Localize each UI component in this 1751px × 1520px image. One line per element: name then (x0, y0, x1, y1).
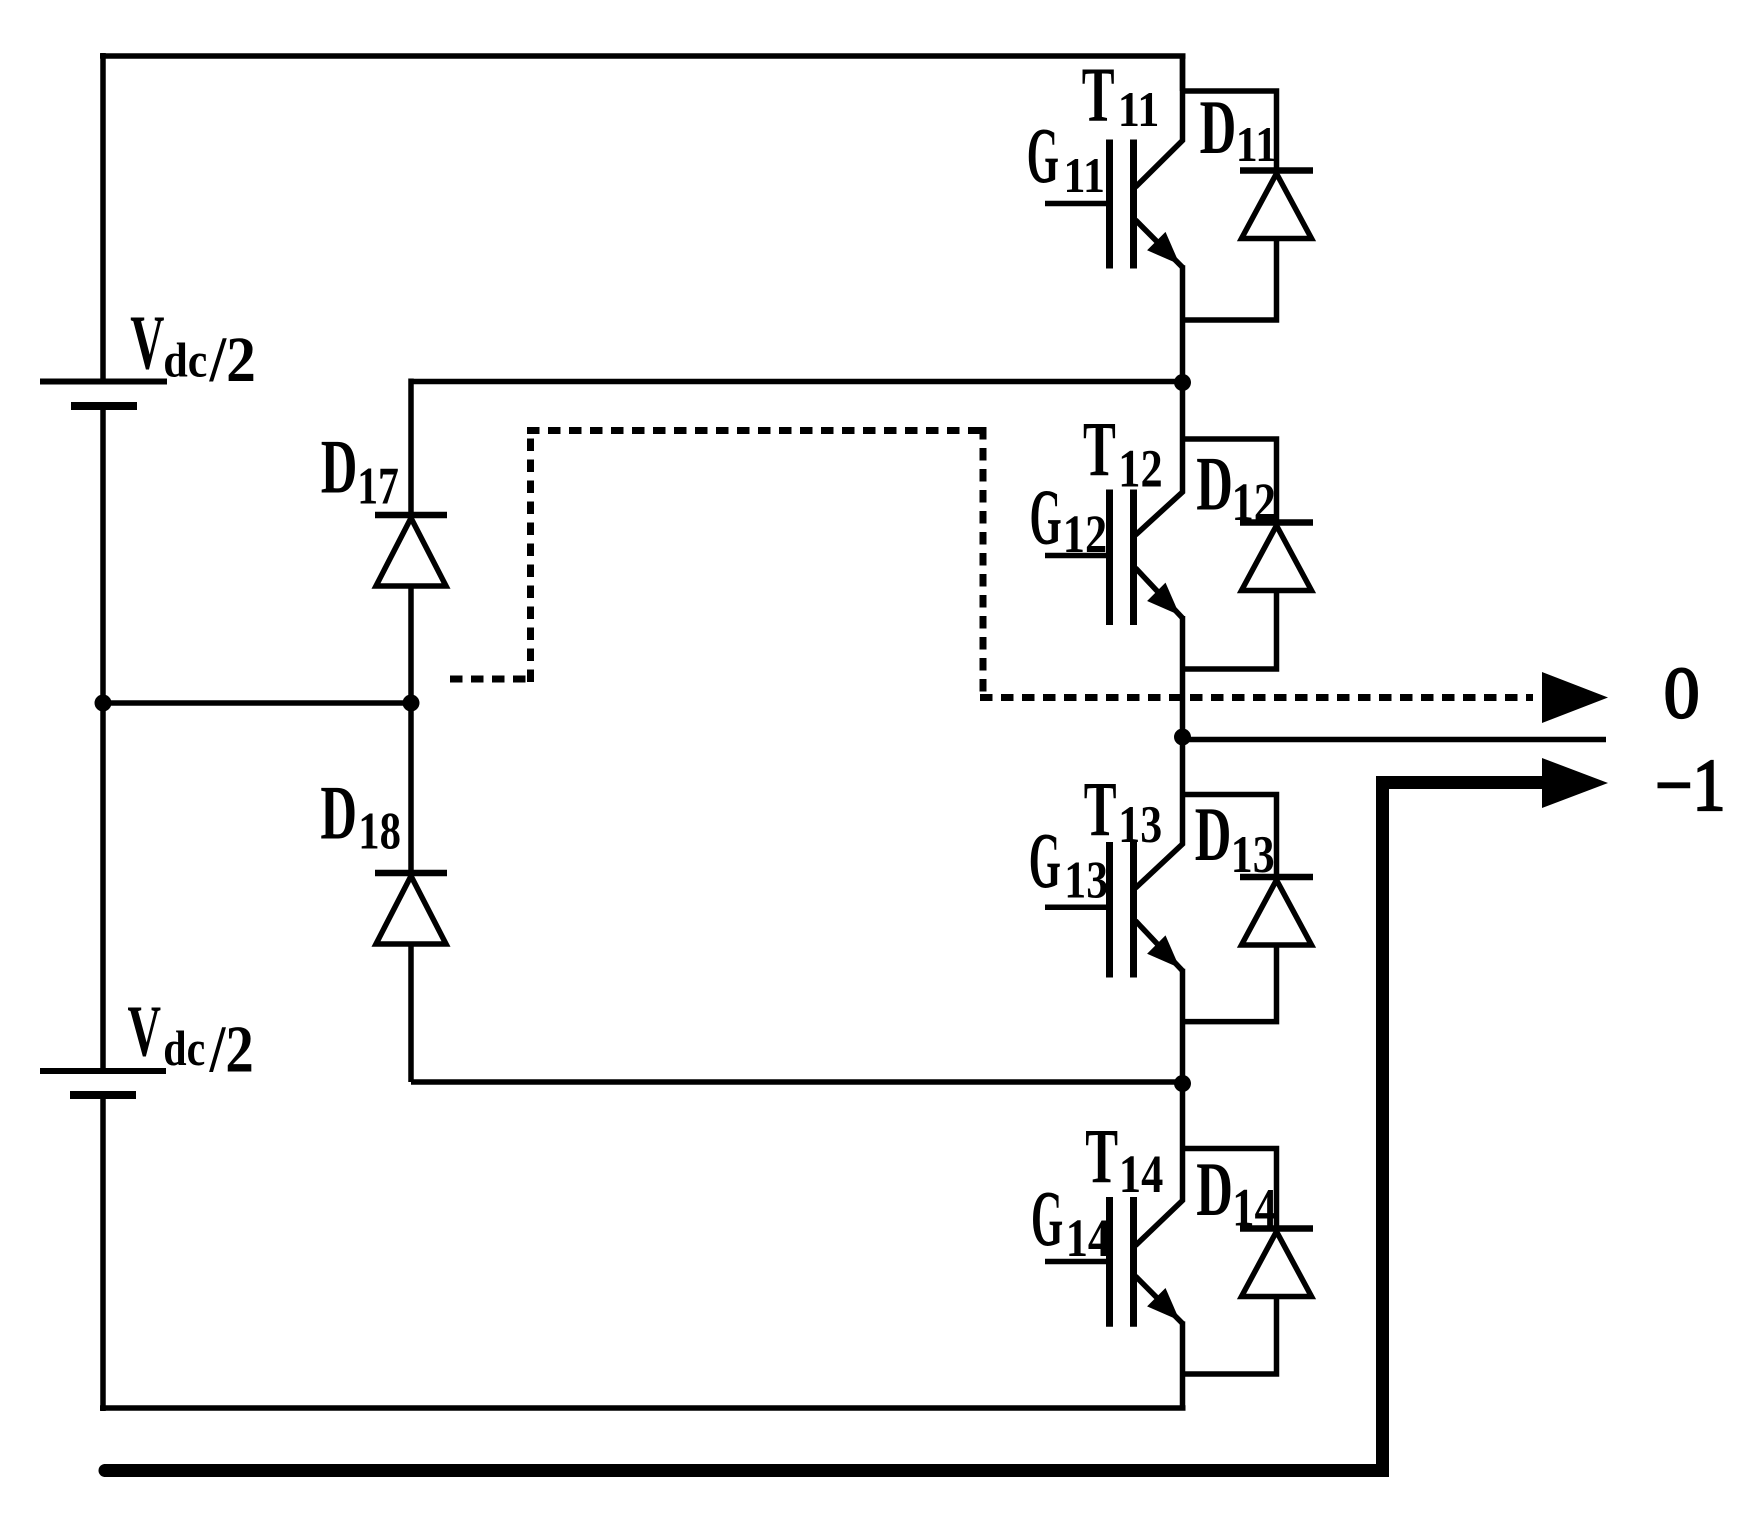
svg-text:T: T (1083, 407, 1116, 493)
svg-text:11: 11 (1118, 83, 1159, 138)
svg-text:D: D (1196, 442, 1233, 527)
svg-text:/2: /2 (209, 1013, 254, 1086)
svg-text:G: G (1030, 473, 1062, 561)
svg-text:D: D (321, 425, 358, 510)
svg-text:G: G (1029, 817, 1061, 905)
svg-text:14: 14 (1066, 1208, 1110, 1268)
svg-text:G: G (1031, 1175, 1063, 1263)
svg-text:13: 13 (1118, 795, 1162, 854)
svg-text:13: 13 (1231, 825, 1275, 884)
svg-text:11: 11 (1064, 148, 1105, 203)
svg-text:V: V (128, 992, 161, 1072)
svg-text:/2: /2 (209, 323, 256, 395)
svg-text:12: 12 (1232, 472, 1276, 532)
svg-text:T: T (1085, 1114, 1118, 1200)
svg-text:D: D (1195, 793, 1232, 878)
svg-text:18: 18 (358, 802, 401, 860)
svg-text:17: 17 (357, 457, 399, 516)
svg-text:T: T (1082, 53, 1115, 139)
svg-text:dc: dc (163, 1021, 205, 1076)
svg-text:13: 13 (1064, 851, 1108, 910)
svg-text:G: G (1027, 112, 1059, 200)
svg-text:D: D (1196, 1147, 1233, 1232)
svg-text:14: 14 (1119, 1144, 1163, 1204)
svg-text:12: 12 (1118, 438, 1162, 498)
svg-text:14: 14 (1232, 1177, 1276, 1237)
svg-text:D: D (320, 771, 357, 856)
svg-text:11: 11 (1236, 118, 1277, 173)
svg-text:dc: dc (163, 335, 207, 388)
svg-text:T: T (1084, 767, 1117, 853)
svg-text:−1: −1 (1655, 745, 1725, 827)
svg-text:D: D (1200, 85, 1237, 170)
svg-text:V: V (130, 300, 164, 386)
svg-text:12: 12 (1063, 504, 1107, 564)
svg-text:0: 0 (1664, 653, 1700, 734)
